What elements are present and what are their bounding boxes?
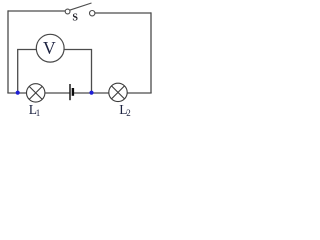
battery: short thick plate — [72, 88, 74, 96]
battery: long thin plate — [69, 84, 71, 100]
svg-text:S: S — [72, 12, 78, 23]
switch S pivot terminal — [65, 9, 70, 14]
wire bottom: lamp L2 to right edge — [127, 92, 152, 94]
lamp L2 circle — [109, 83, 127, 101]
svg-text:V: V — [43, 38, 56, 58]
junction node left (blue) — [16, 91, 20, 95]
svg-text:2: 2 — [126, 108, 131, 117]
wire bottom: battery to lamp L2 — [74, 92, 109, 94]
lamp L1 circle — [27, 84, 45, 102]
svg-text:1: 1 — [36, 108, 41, 117]
junction node right (blue) — [89, 91, 93, 95]
switch S right terminal — [90, 11, 95, 16]
lamp L1 cross — [29, 86, 42, 99]
wire right vertical — [150, 12, 152, 93]
switch S blade (open) — [70, 3, 92, 10]
wire bottom: lamp L1 to battery — [45, 92, 69, 94]
voltmeter U1 circle — [36, 34, 64, 62]
lamp L2 cross — [112, 86, 125, 99]
voltmeter branch left wire — [18, 50, 37, 93]
wire top-left horizontal — [8, 10, 65, 12]
wire top-right horizontal — [95, 12, 151, 14]
wire bottom: left edge to lamp L1 — [7, 92, 26, 94]
voltmeter branch right wire — [64, 50, 91, 93]
wire left vertical — [7, 10, 9, 93]
